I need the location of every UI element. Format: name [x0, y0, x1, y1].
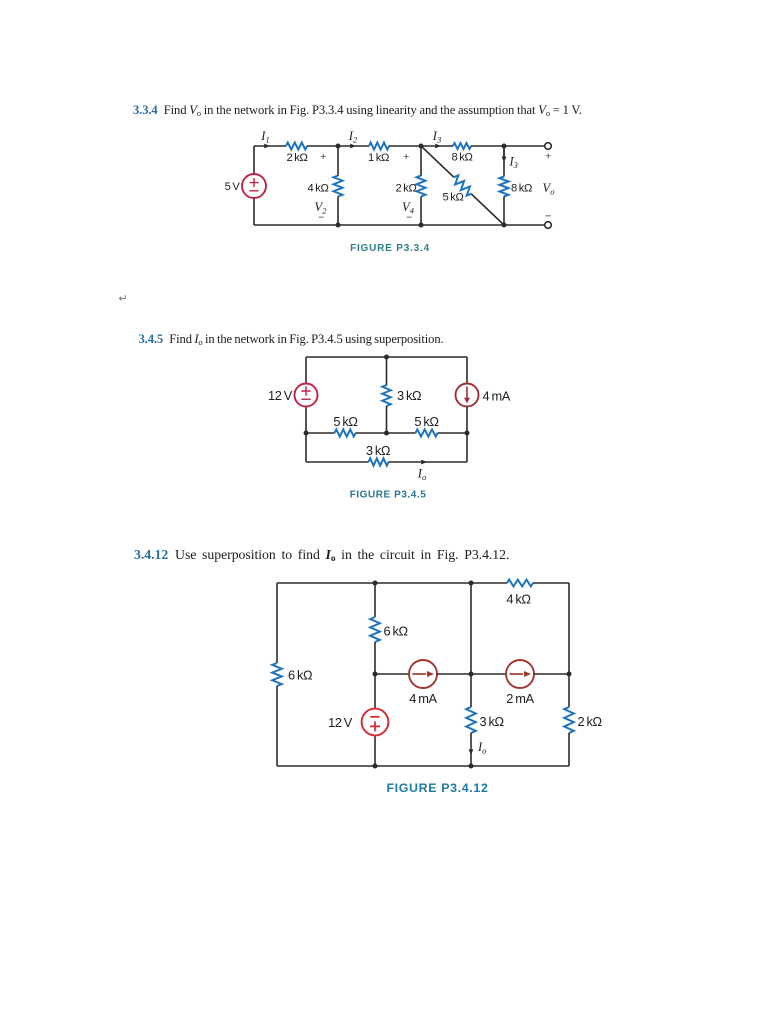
svg-text:2 kΩ: 2 kΩ: [395, 182, 416, 194]
svg-text:3 kΩ: 3 kΩ: [397, 388, 422, 403]
svg-text:−: −: [318, 212, 324, 224]
svg-text:1 kΩ: 1 kΩ: [368, 152, 389, 164]
svg-text:+: +: [545, 150, 551, 162]
svg-text:−: −: [406, 212, 412, 224]
svg-text:8 kΩ: 8 kΩ: [511, 183, 532, 195]
svg-text:4 mA: 4 mA: [409, 691, 437, 706]
svg-text:6 kΩ: 6 kΩ: [384, 623, 409, 638]
svg-text:5 kΩ: 5 kΩ: [442, 192, 463, 204]
svg-text:+: +: [403, 151, 409, 163]
svg-text:I2: I2: [348, 129, 358, 145]
svg-text:−: −: [545, 211, 551, 223]
svg-text:Vo: Vo: [543, 181, 555, 197]
svg-text:6 kΩ: 6 kΩ: [288, 667, 313, 682]
svg-text:Io: Io: [417, 467, 426, 483]
svg-text:3 kΩ: 3 kΩ: [480, 714, 505, 729]
svg-text:Io: Io: [477, 740, 486, 756]
svg-text:4 kΩ: 4 kΩ: [307, 182, 328, 194]
svg-text:2 mA: 2 mA: [506, 691, 534, 706]
svg-text:8 kΩ: 8 kΩ: [451, 152, 472, 164]
svg-text:3 kΩ: 3 kΩ: [366, 443, 391, 458]
svg-text:I3: I3: [432, 129, 441, 145]
svg-text:FIGURE P3.4.12: FIGURE P3.4.12: [386, 781, 488, 795]
svg-text:12 V: 12 V: [328, 715, 353, 730]
svg-text:4 kΩ: 4 kΩ: [506, 591, 531, 606]
svg-text:5 kΩ: 5 kΩ: [414, 414, 439, 429]
svg-text:5 V: 5 V: [225, 181, 241, 193]
svg-text:FIGURE P3.4.5: FIGURE P3.4.5: [350, 489, 427, 500]
svg-text:I1: I1: [260, 129, 269, 145]
svg-text:2 kΩ: 2 kΩ: [578, 714, 603, 729]
svg-text:+: +: [320, 151, 326, 163]
svg-text:FIGURE P3.3.4: FIGURE P3.3.4: [350, 243, 430, 254]
svg-text:12 V: 12 V: [268, 388, 293, 403]
svg-text:5 kΩ: 5 kΩ: [333, 414, 358, 429]
svg-text:2 kΩ: 2 kΩ: [286, 152, 307, 164]
svg-text:4 mA: 4 mA: [483, 389, 511, 404]
svg-text:I3: I3: [509, 155, 518, 171]
